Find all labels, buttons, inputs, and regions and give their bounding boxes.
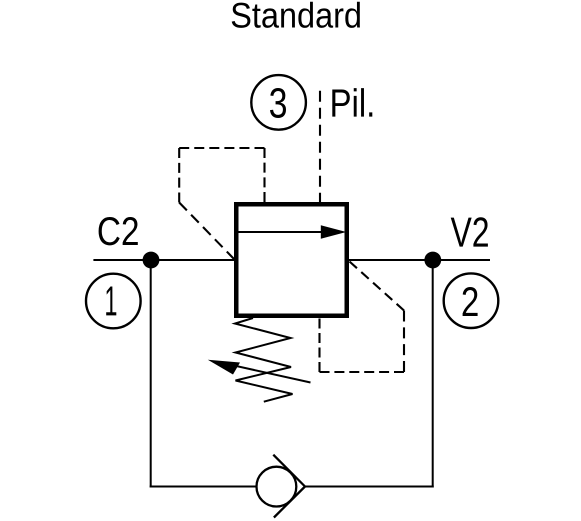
port circle 2 [444,273,499,328]
wire V2 port line [347,259,490,261]
junction node right [424,252,441,269]
label C2 [99,217,138,245]
title Standard [232,2,360,28]
junction node left [143,252,160,269]
wire C2 port line [93,259,236,261]
label Pil. [332,88,372,117]
pilot dashed loop right [320,262,405,373]
wire bottom left [150,486,256,488]
port circle 1 [86,274,141,329]
check valve CV1 [257,455,306,518]
pilot dashed loop left [179,148,264,260]
adjustment arrow [208,360,311,383]
wire right vertical [432,264,434,488]
wire bottom right [305,486,434,488]
port circle 3 [251,75,306,130]
wire left vertical [150,264,152,488]
valve body U1 (envelope box) [236,204,347,316]
pilot line (dashed vertical Pil.) [319,91,321,202]
spring [235,318,293,402]
flow arrow inside valve [239,225,347,238]
label V2 [451,217,488,246]
